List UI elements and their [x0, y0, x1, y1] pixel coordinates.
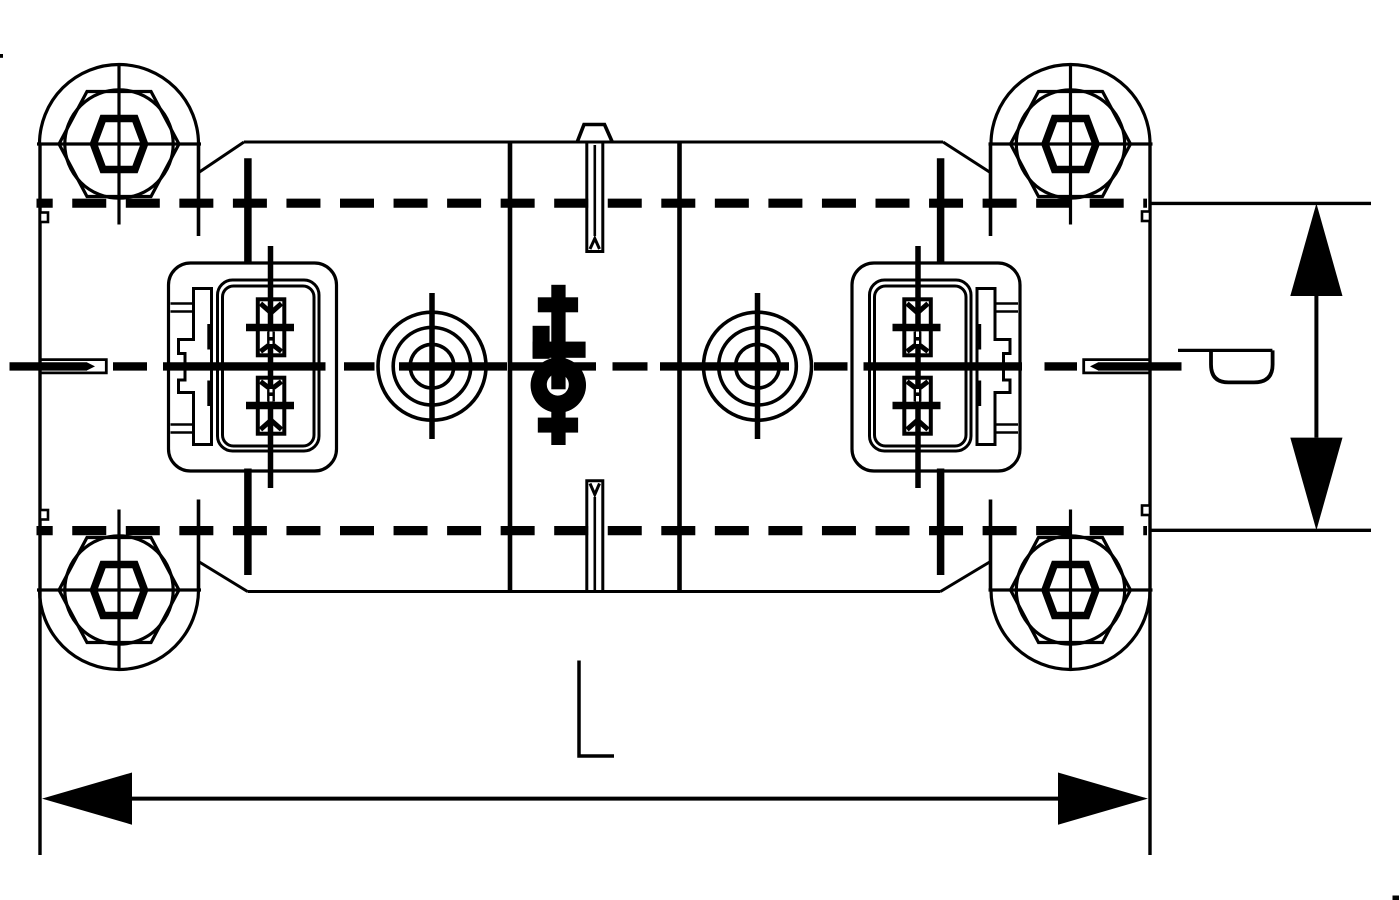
right connector centerline: [915, 246, 921, 488]
right connector terminal 2: [893, 378, 941, 434]
hidden line bottom: [37, 526, 1148, 535]
dimension P arrowhead top: [1290, 203, 1342, 296]
hidden line top: [37, 199, 1148, 208]
notch right bottom: [1142, 506, 1150, 516]
left connector centerline: [268, 246, 274, 488]
left connector inner shell: [218, 280, 320, 451]
left pilot circles: [378, 293, 486, 439]
frame mark top-left: [0, 54, 3, 58]
dimension L arrowhead left: [42, 773, 132, 825]
right pilot circles: [704, 293, 812, 439]
boss edge TR: [989, 145, 993, 236]
center section left edge: [508, 141, 513, 592]
center section right edge: [677, 141, 682, 592]
frame mark bottom-right: [1393, 896, 1400, 900]
body chamfer BR: [941, 562, 991, 592]
notch left bottom: [40, 510, 48, 520]
top slot: [587, 143, 603, 252]
top tab: [577, 125, 613, 143]
body bottom edge: [248, 590, 941, 593]
datum symbol bottom cross: [538, 418, 578, 433]
right connector outline: [852, 263, 1020, 471]
main centerline: [10, 362, 1182, 370]
left pin sleeve: [42, 360, 107, 373]
dimension L line: [132, 797, 1058, 801]
datum symbol ring: [531, 357, 586, 412]
bolt BL: [37, 510, 201, 671]
bolt TR: [989, 64, 1153, 225]
notch right top: [1142, 212, 1150, 222]
boss edge TL: [197, 145, 201, 236]
left connector terminal 2: [246, 378, 294, 434]
right pin sleeve: [1084, 360, 1149, 373]
right connector axis line: [937, 158, 945, 575]
bolt BR: [989, 510, 1153, 671]
left connector axis line: [244, 158, 252, 575]
datum symbol top cross: [538, 297, 578, 312]
dimension P arrowhead bottom: [1290, 438, 1342, 531]
right connector key profile: [977, 289, 1018, 445]
body chamfer TR: [943, 142, 991, 173]
dimension P label: [1178, 350, 1273, 382]
dimension P line: [1314, 296, 1318, 438]
body left edge: [38, 145, 41, 855]
left connector terminal 1: [246, 299, 294, 355]
left connector key profile: [171, 289, 212, 445]
dimension L label: [579, 661, 614, 757]
body chamfer TL: [199, 142, 245, 173]
dimension L arrowhead right: [1058, 773, 1148, 825]
body chamfer BL: [199, 562, 248, 592]
right connector terminal 1: [893, 299, 941, 355]
datum symbol left block: [533, 326, 550, 359]
boss edge BR: [989, 500, 993, 591]
boss edge BL: [197, 500, 201, 591]
bolt TL: [37, 64, 201, 225]
dimension P extension top: [1151, 202, 1371, 205]
body right edge: [1148, 145, 1151, 855]
right pin taper: [1090, 362, 1098, 370]
left connector outline: [169, 263, 337, 471]
notch left top: [40, 213, 48, 223]
right connector inner shell: [870, 280, 972, 451]
dimension P extension bottom: [1151, 529, 1371, 532]
datum symbol stem: [551, 285, 565, 390]
left pin taper: [87, 362, 95, 370]
bottom slot: [587, 481, 603, 591]
body top edge: [244, 141, 943, 144]
